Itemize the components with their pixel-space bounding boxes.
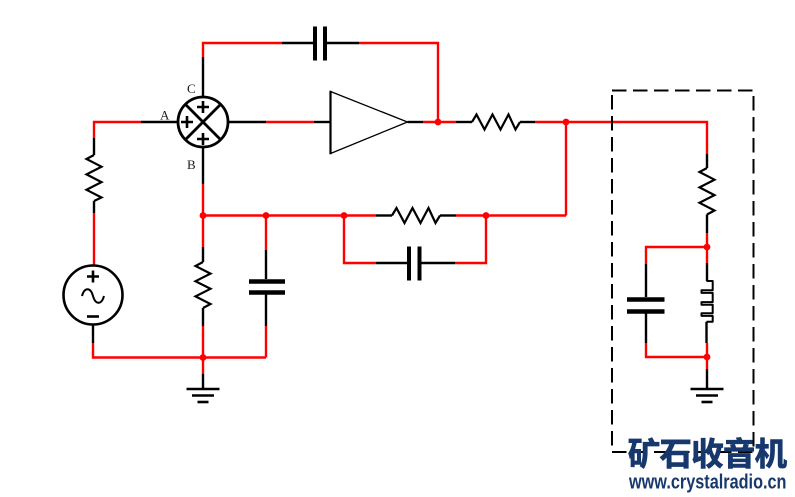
wire R4 top black lead xyxy=(202,247,204,262)
capacitor C2 (horizontal, parallel with R3) xyxy=(409,247,420,281)
logo text 矿石收音机 xyxy=(628,437,787,469)
source V1 (sine source circle) xyxy=(64,266,123,325)
wire black ground lead xyxy=(202,374,204,388)
resistor R2 (vertical, left) xyxy=(87,155,102,201)
wire red R4 branch top xyxy=(202,216,204,248)
svg-text:C: C xyxy=(187,81,196,96)
wire red vertical from output net down to feedback net xyxy=(565,122,567,216)
middle feedback net red xyxy=(203,214,376,216)
resistor R5 (vertical, tank) xyxy=(700,168,715,215)
wire red ground stub xyxy=(202,358,204,375)
capacitor C4 (vertical, tank) xyxy=(627,300,665,312)
wire red C2 branch down-left xyxy=(344,216,376,264)
wire red L1 bottom xyxy=(706,343,708,357)
wire red R5 to tank node xyxy=(706,233,708,247)
wire amp input black lead xyxy=(314,121,330,123)
inductor L1 (vertical coil) xyxy=(702,281,713,322)
wire mixer bottom pin black xyxy=(202,147,204,184)
capacitor C1 (top feedback, horizontal) xyxy=(315,27,325,61)
op-amp U2 buffer triangle xyxy=(331,91,408,154)
wire red output net to tank corner xyxy=(535,122,707,154)
wire red mixer bottom to middle net xyxy=(202,184,204,215)
wire amp output black lead xyxy=(408,121,424,123)
wire red bottom net xyxy=(93,343,266,358)
junction node at amp output xyxy=(435,119,442,126)
wire L1 top black lead xyxy=(706,263,708,281)
wire C2 right black lead xyxy=(422,262,456,264)
wire red L1 top xyxy=(706,247,708,263)
wire C1 right black lead xyxy=(327,42,359,44)
wire R5 bottom black lead xyxy=(706,215,708,234)
wire L1 bottom black lead xyxy=(705,322,707,343)
wire red R4 bottom xyxy=(202,326,204,358)
mixer plus sign left xyxy=(181,101,209,145)
junction node RC right xyxy=(483,212,490,219)
resistor R1 (horizontal, output) xyxy=(472,115,520,130)
V1 plus sign xyxy=(87,271,99,283)
junction node RC left xyxy=(341,212,348,219)
dashed box (tank circuit enclosure) xyxy=(612,91,754,453)
mixer U1 (multiplier circle with X and + signs) xyxy=(178,97,228,147)
wire R1 left black lead xyxy=(456,121,472,123)
wire red amp output node xyxy=(423,121,456,123)
wire red ground stub right xyxy=(706,357,708,369)
V1 minus sign xyxy=(87,315,99,318)
wire C1 left black lead xyxy=(282,42,313,44)
wire red tank bottom horizontal xyxy=(646,343,707,357)
junction node tank top xyxy=(704,244,711,251)
wire R4 bottom black lead xyxy=(202,308,204,326)
wire R1 right black lead xyxy=(520,121,535,123)
mixer plus sign top xyxy=(197,101,209,113)
wire red C3 branch top xyxy=(265,216,267,251)
resistor R3 (horizontal, feedback) xyxy=(392,208,440,223)
left branch: wire black R2 top lead xyxy=(93,138,95,155)
wire R3 left black lead xyxy=(376,214,392,216)
junction node bottom net xyxy=(200,354,207,361)
resistor R4 (vertical, middle) xyxy=(196,262,211,308)
wire R5 top black lead xyxy=(706,154,708,168)
wire C4 top black lead xyxy=(645,264,647,297)
junction node at output net xyxy=(563,119,570,126)
wire C3 top black lead xyxy=(265,250,267,279)
wire red C2 branch up-right xyxy=(455,216,486,264)
wire red C3 bottom xyxy=(265,326,267,358)
ground GND1 xyxy=(187,389,220,402)
svg-text:A: A xyxy=(160,108,170,123)
wire red tank top horizontal xyxy=(646,247,707,264)
wire C3 bottom black lead xyxy=(265,295,267,327)
wire top-right red segment from C1 to output node xyxy=(359,43,438,120)
mixer plus sign bottom xyxy=(197,133,209,145)
wire mixer left pin black xyxy=(141,121,178,123)
V1 sine wave xyxy=(82,289,104,303)
svg-text:B: B xyxy=(187,157,196,172)
ground GND2 xyxy=(691,389,724,402)
wire mixer top pin black xyxy=(202,57,204,98)
wire red feedback net right xyxy=(456,214,566,216)
svg-text:www.crystalradio.cn: www.crystalradio.cn xyxy=(628,472,786,494)
wire red to left branch xyxy=(94,122,141,138)
wire black R2 bottom lead xyxy=(93,201,95,213)
junction node tank bottom xyxy=(704,354,711,361)
wire top-left red segment from node above mixer to C1 left lead xyxy=(203,43,282,57)
wire R3 right black lead xyxy=(440,214,456,216)
junction node C3 top xyxy=(263,212,270,219)
wire C4 bottom black lead xyxy=(645,314,647,344)
wire V1 bottom black lead xyxy=(92,325,94,344)
wire red mixer output to amp xyxy=(266,121,314,123)
junction node B net left xyxy=(200,212,207,219)
wire mixer right pin black xyxy=(228,121,266,123)
wire black ground lead right xyxy=(706,369,708,388)
wire red R2 to source V1 xyxy=(93,213,95,266)
wire C2 left black lead xyxy=(376,262,407,264)
capacitor C3 (vertical, middle) xyxy=(249,282,285,293)
